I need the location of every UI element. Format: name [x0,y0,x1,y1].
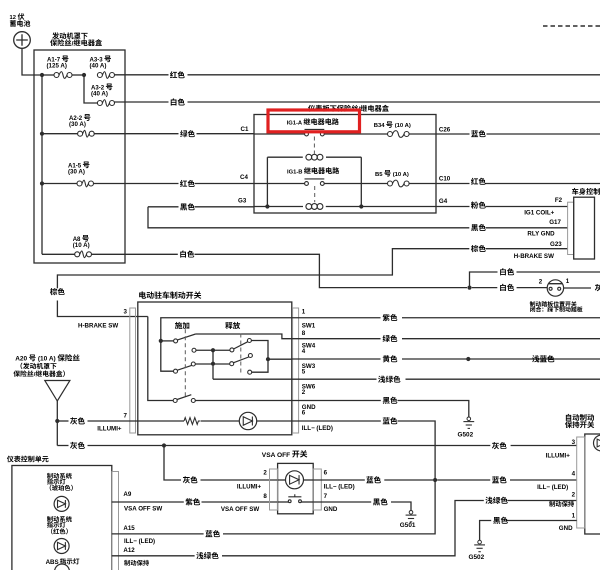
gauge connector bracket [112,472,119,570]
svg-text:GND: GND [324,506,338,513]
label black G17 row [471,224,486,231]
svg-text:8: 8 [302,330,306,337]
wire green SW4 to right edge [292,338,381,340]
wire ILLUMI row [57,420,68,422]
svg-text:1: 1 [566,278,570,285]
electric parking brake switch label [139,291,201,299]
wire gray drop to VSA OFF switch [164,446,181,481]
release switch upper - contact [230,348,234,352]
VSA left bracket [270,469,278,510]
svg-text:IG1 COIL+: IG1 COIL+ [524,210,554,217]
svg-text:H-BRAKE SW: H-BRAKE SW [78,322,118,329]
svg-text:(30 A): (30 A) [69,121,86,128]
wire black GND to ground G502 [292,400,381,402]
svg-text:ILLUMI+: ILLUMI+ [97,425,122,432]
svg-text:G501: G501 [400,522,416,529]
wire GND row out [195,400,291,402]
label light green A12 [196,552,218,559]
label gray ILLUMI+ [70,417,85,424]
brake system indicator red LED [54,539,69,554]
label green SW4 [383,335,398,342]
svg-text:(10 A): (10 A) [395,123,411,129]
svg-text:ILL− (LED): ILL− (LED) [302,425,333,432]
bus vertical from battery junction [41,75,43,254]
svg-text:VSA OFF SW: VSA OFF SW [221,506,259,513]
wire purple A9 to VSA OFF switch [112,501,184,503]
label gray right [492,442,507,449]
ground G502 [467,417,471,421]
EPB left connector bracket [130,308,136,433]
release actuator dashed [240,334,242,374]
wire brown H-BRAKE SW net [486,248,568,250]
svg-text:B5: B5 [375,172,383,178]
svg-text:(40 A): (40 A) [91,90,108,97]
label black G3 row [180,203,195,210]
svg-text:1: 1 [302,308,306,315]
svg-text:(40 A): (40 A) [90,63,107,70]
feed wire A3-2 [84,75,97,103]
junction white net [467,286,471,290]
svg-text:ABS: ABS [46,559,59,566]
gauge control unit label [7,456,49,463]
wire black BH GND to G502 [506,520,577,522]
svg-text:ILLUMI+: ILLUMI+ [237,484,262,491]
svg-text:G3: G3 [238,197,247,204]
svg-text:C10: C10 [439,176,451,183]
EPB switch box [138,302,292,435]
BH name brake hold [549,501,574,507]
wire gray feed vertical [56,401,58,446]
junction coil commons [265,204,269,208]
relay IG1-A coil [267,156,302,158]
svg-text:(30 A): (30 A) [68,169,85,176]
BCM label [572,188,600,195]
svg-text:C1: C1 [241,126,249,133]
svg-text:6: 6 [302,410,306,417]
EPB right connector bracket [293,308,299,433]
label gray cut at edge [595,284,600,291]
wire middle row upper [196,349,230,351]
release bottom terminal [248,370,252,374]
svg-text:/: / [72,40,74,47]
release switch lower - contact [230,362,234,366]
wire blue VSA ILL- to junction [313,479,365,481]
svg-text:3: 3 [572,439,576,446]
ground G502 second [478,540,482,544]
label light blue [532,355,554,362]
brake hold box [585,434,600,534]
wire black RLY GND net [148,206,179,208]
svg-text:(125 A): (125 A) [47,63,67,70]
label release [225,322,240,329]
VSA OFF LED [286,471,304,489]
brake system indicator red label [47,516,72,522]
fuse A1-7 125A [42,74,54,76]
svg-text:(10 A): (10 A) [393,172,409,178]
body control module box [574,197,595,259]
wire middle vertical [212,350,214,379]
apply switch lower - contact [174,369,178,373]
label red A1-5 [180,180,195,187]
relay IG1-B coil [306,204,312,210]
wire red C10 to right edge [436,183,470,185]
svg-text:ILL− (LED): ILL− (LED) [537,484,568,491]
VSA right bracket [313,469,321,510]
relay IG1-A contact [305,132,309,136]
fuse B34 10A [388,132,393,137]
wire battery to under-hood fuse box [22,48,42,75]
svg-text:2: 2 [572,492,576,499]
wire release upper output [251,341,268,373]
apply actuator dashed [184,329,186,398]
junction release output [266,357,270,361]
label blue right [492,476,507,483]
label green [180,130,195,137]
wire red row to right edge [115,74,169,76]
pin name brake hold gauge [124,560,149,566]
wire green row to under-dash box [94,133,178,135]
label black GND [383,397,398,404]
wire C4 row inside box [254,183,305,185]
brake pedal position switch [547,280,563,296]
svg-text:1: 1 [572,513,576,520]
wire B5 to C10 [409,183,436,185]
svg-text:VSA OFF: VSA OFF [262,452,290,459]
label pink [471,201,486,208]
wire C1 row inside box [254,133,305,135]
wire black VSA GND to G501 [313,501,371,503]
svg-text:3: 3 [124,309,128,316]
wire gray row to brake hold switch [166,445,490,447]
svg-text:G4: G4 [439,198,448,205]
splice yellow to light blue [466,357,470,361]
wire purple SW1 to right edge [292,317,381,319]
label brown left vertical [50,288,65,295]
label blue C26 [471,130,486,137]
label yellow [383,355,398,362]
wire apply upper output [196,334,292,339]
svg-text:2: 2 [302,389,306,396]
wire white A8 to pedal switch [92,253,178,255]
label red [170,71,185,78]
battery B1 12V [14,32,31,49]
svg-text:12: 12 [10,15,16,21]
wire ILLUMI row through LED [278,479,286,481]
BCM connector bracket [568,202,574,254]
fuse A3-3 40A [97,73,102,78]
wire white row to right edge [115,101,169,103]
wire yellow SW3 row [292,358,381,360]
label light green upper [485,497,507,504]
LED EPB backlight [239,412,256,429]
pedal switch note [530,301,577,307]
svg-text:ILL− (LED): ILL− (LED) [124,538,155,545]
junction blue ILL- net [433,478,437,482]
wire blue junction to brake hold [437,479,490,481]
gauge control unit box [12,466,112,570]
wire blue C26 to right edge [436,133,470,135]
wire common to apply upper contact [161,340,174,342]
svg-text:A15: A15 [123,525,135,532]
label purple [383,314,398,321]
junction apply common [159,339,163,343]
svg-text:IG1-B: IG1-B [287,169,303,175]
under-hood fuse box label [52,32,87,39]
wire contact to fuse B5 [324,183,390,185]
svg-text:SW1: SW1 [302,322,316,329]
svg-text:4: 4 [302,348,306,355]
wire B34 to C26 [409,133,436,135]
svg-text:7: 7 [324,493,328,500]
wire gray row 2 [57,445,68,447]
fuse A2-2 30A [42,133,78,135]
wire blue ILL- to junction below [292,420,381,422]
wire G3-G4 row [254,206,303,208]
label black BH [493,517,508,524]
label white pedal row [500,284,514,291]
label white A8 [180,250,194,257]
wire light green A12 to brake hold [112,555,195,557]
svg-text:5: 5 [302,369,306,376]
dashed separator top right [543,25,600,27]
ABS indicator LED partial [55,564,70,570]
relay IG1-A actuator dashed [313,137,315,154]
svg-text:H-BRAKE SW: H-BRAKE SW [514,253,554,260]
label white branch [500,268,514,275]
red highlight around IG1-A relay [268,110,360,132]
label white [171,98,185,105]
svg-text:A20: A20 [15,356,27,363]
svg-text:A9: A9 [123,491,131,498]
wire gray from pedal switch [564,287,591,289]
label purple A9 [185,498,200,505]
SW6 detent contact [173,399,177,403]
brake system indicator amber label [47,473,72,479]
svg-text:A12: A12 [123,547,135,554]
label red C10 [471,178,486,185]
fuse A3-2 40A [97,101,102,106]
junction battery bus [40,73,44,77]
wire VSA SW row [278,501,289,503]
label black VSA [373,498,388,505]
VSA push switch [288,500,291,503]
svg-text:C26: C26 [439,127,451,134]
svg-text:(10 A): (10 A) [73,242,90,249]
svg-text:G502: G502 [458,432,474,439]
svg-text:2: 2 [539,279,543,286]
label brown right [471,245,486,252]
svg-text:ILLUMI+: ILLUMI+ [546,453,571,460]
junction gray ILLUMI [55,419,59,423]
wire contact to fuse B34 [324,133,390,135]
svg-text:VSA OFF SW: VSA OFF SW [124,506,162,513]
label gray VSA [183,476,198,483]
junction middle rows [211,348,215,352]
svg-text:8: 8 [263,493,267,500]
svg-text:ILL− (LED): ILL− (LED) [324,484,355,491]
auto brake hold switch label [566,414,594,421]
wire coil right vertical [360,157,362,206]
wire pin1 common [161,318,292,371]
label apply [175,322,189,329]
relay IG1-B contact [305,182,309,186]
svg-text:(10 A): (10 A) [38,356,56,363]
middle terminal c3 [191,362,195,366]
fuse A8 10A [42,253,75,255]
brake system indicator amber LED [54,496,69,511]
wire pink G4 to BCM F2 [436,206,470,208]
wire red row to under-dash box [94,183,179,185]
label blue ILL- [383,417,398,424]
label gray row2 [70,442,85,449]
svg-text:G502: G502 [469,554,485,561]
middle terminal c2 [192,348,196,352]
wire blue A15 ILL- net [112,533,204,535]
wire light green SW6 row [292,378,377,380]
wire pin3 feed down [148,317,174,401]
svg-text:GND: GND [559,525,573,532]
svg-text:G23: G23 [550,241,562,248]
ground G501 [409,511,413,515]
apply switch upper - contact [174,339,178,343]
svg-text:6: 6 [324,470,328,477]
wire coil left vertical [266,157,268,206]
wire white branch to right edge [470,272,498,288]
VSA OFF switch box [278,463,314,513]
svg-text:7: 7 [124,412,128,419]
svg-text:IG1-A: IG1-A [287,120,303,126]
svg-text:4: 4 [572,470,576,477]
svg-text:2: 2 [263,470,267,477]
svg-text:F2: F2 [555,197,563,204]
fuse A1-5 30A [42,183,77,185]
wire SW6 row out [213,378,292,380]
brake hold bracket [577,437,585,528]
under-hood fuse/relay box [34,50,125,263]
svg-text:G17: G17 [549,219,561,226]
label blue VSA [366,476,381,483]
svg-text:RLY GND: RLY GND [527,231,555,238]
resistor EPB backlight [184,418,200,425]
label blue A15 [205,530,220,537]
under-dash fuse/relay box [254,115,436,214]
wire middle row lower [195,363,229,365]
svg-text:C4: C4 [240,174,248,181]
wire release output row [268,358,292,360]
fuse B5 10A [388,181,393,186]
svg-text:B34: B34 [374,123,386,129]
junction gray to VSA [162,443,166,447]
relay IG1-B actuator dashed [314,186,316,202]
fuse A20 feed triangle [45,381,70,402]
label light green [378,376,400,383]
brake hold LED partial [594,435,600,451]
